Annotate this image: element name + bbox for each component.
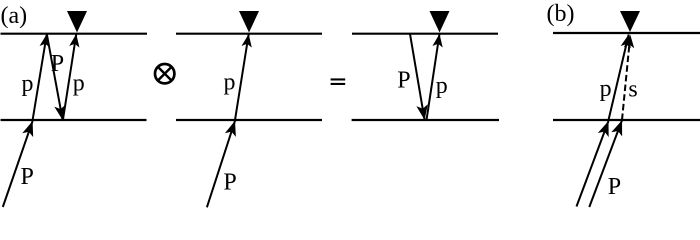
arrowhead incident P left panel 4 [598, 119, 614, 137]
top interface line panel 2 [176, 33, 322, 35]
top interface line panel 1 [1, 33, 148, 35]
arrowhead p ray panel 2 [242, 33, 254, 47]
svg-text:P: P [223, 169, 236, 195]
wire s converted ray dashed panel 4 [622, 42, 630, 120]
svg-text:(b): (b) [547, 1, 575, 27]
wire p up-leg 1 panel 1 [33, 34, 47, 120]
arrowhead s ray panel 4 [624, 34, 636, 48]
svg-text:p: p [436, 73, 448, 99]
station triangle panel 3 [430, 11, 450, 33]
svg-text:p: p [600, 76, 612, 102]
bottom interface line panel 4 [553, 119, 700, 121]
svg-text:P: P [51, 51, 64, 77]
arrowhead incident P right panel 4 [611, 118, 627, 136]
svg-text:p: p [22, 71, 34, 97]
arrowhead P down-leg panel 3 [416, 104, 430, 121]
svg-text:P: P [21, 164, 34, 190]
wire incident P ray left panel 4 [577, 121, 609, 207]
bottom interface line panel 2 [176, 119, 322, 121]
top interface line panel 4 [553, 32, 700, 34]
bottom interface line panel 1 [1, 119, 147, 121]
operator equals [331, 78, 346, 85]
svg-text:(a): (a) [1, 3, 28, 29]
arrowhead P down-leg panel 1 [54, 104, 68, 121]
arrowhead p up-leg panel 3 [432, 33, 444, 47]
svg-text:p: p [224, 70, 236, 96]
arrowhead p ray panel 4 [621, 33, 634, 48]
arrowhead incident P panel 1 [22, 119, 38, 137]
wire P down-leg panel 1 [47, 34, 63, 120]
svg-text:P: P [608, 174, 621, 200]
arrowhead p up-leg 1 panel 1 [40, 33, 52, 48]
arrowhead p up-leg 2 panel 1 [69, 33, 81, 47]
wire incident P ray panel 1 [3, 121, 33, 207]
svg-text:P: P [397, 68, 410, 94]
arrowhead incident P panel 2 [225, 119, 241, 137]
svg-text:p: p [73, 70, 85, 96]
wire p ray panel 2 [235, 34, 249, 120]
top interface line panel 3 [352, 33, 498, 35]
wire P down-leg panel 3 [410, 34, 425, 120]
station triangle panel 2 [239, 11, 259, 33]
wire p up-leg 2 panel 1 [63, 34, 76, 120]
wire p up-leg panel 3 [427, 34, 440, 120]
svg-text:s: s [628, 77, 637, 103]
wire incident P ray panel 2 [207, 121, 235, 208]
station triangle panel 1 [67, 11, 87, 33]
bottom interface line panel 3 [352, 119, 499, 121]
wire p converted ray panel 4 [609, 35, 629, 121]
operator circled-times [155, 64, 174, 83]
wire incident P ray right panel 4 [589, 120, 622, 207]
station triangle panel 4 [620, 11, 640, 32]
